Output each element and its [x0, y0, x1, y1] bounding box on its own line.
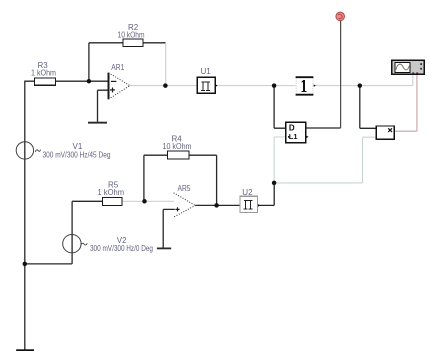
node AR5 output junction [214, 203, 219, 208]
wire U1 output to gain block (light) [217, 85, 295, 87]
divider block (D/U) [286, 122, 309, 142]
wire feedback1 left leg up from node [88, 43, 90, 81]
resistor R3 body [35, 78, 56, 85]
wire feedback2 left leg [144, 155, 168, 201]
resistor R4 body [168, 151, 189, 159]
gain block (1) [296, 77, 316, 95]
wire U2 output up to node [258, 183, 275, 206]
svg-text:U1: U1 [201, 67, 212, 76]
svg-text:1 kOhm: 1 kOhm [31, 68, 56, 77]
node AR1 output junction [163, 83, 168, 88]
svg-text:AR1: AR1 [111, 63, 124, 72]
wire gain block output to scope channel A (light) [313, 74, 412, 85]
node AR1 inverting input junction [87, 79, 92, 84]
oscilloscope XSC [392, 60, 425, 74]
wire AR5 non-inverting input to ground [163, 209, 175, 247]
op-amp AR5 [174, 193, 196, 217]
integrator block U1 [197, 77, 218, 93]
svg-text:U2: U2 [242, 188, 253, 197]
node AR5 inverting input junction [142, 199, 147, 204]
node U1 output net junction [272, 83, 277, 88]
AC source V1 [16, 142, 40, 159]
wire left rail vertical from R3 row down to ground [24, 81, 26, 350]
wire AR1 output rail to U1 (light) [130, 85, 197, 87]
wire AR1 inverting input rail [25, 80, 109, 82]
ground GND3 bottom left [16, 349, 34, 351]
ground GND1 under AR1 [88, 122, 107, 124]
wire feedback2 right leg [189, 155, 217, 205]
svg-text:10 kOhm: 10 kOhm [118, 30, 145, 39]
AC source V2 [63, 235, 88, 253]
svg-text:AR5: AR5 [178, 184, 191, 193]
probe (red) [336, 12, 345, 21]
wire V2 vertical rail [71, 201, 73, 264]
svg-text:300 mV/300 Hz/0 Deg: 300 mV/300 Hz/0 Deg [90, 244, 153, 253]
svg-text:10 kOhm: 10 kOhm [163, 142, 192, 151]
svg-text:L1: L1 [289, 132, 298, 141]
wire divider output to probe leg [306, 127, 341, 129]
svg-text:300 mV/300 Hz/45 Deg: 300 mV/300 Hz/45 Deg [43, 151, 111, 160]
wire node to multiplier input 1 [360, 86, 376, 129]
multiplier block [376, 126, 394, 139]
wire node to divider input 1 [274, 86, 285, 129]
wire AR5 inverting input rail through R5 [72, 200, 122, 202]
integrator block U2 [240, 196, 260, 212]
wire divider input 2 from lower node (light) [274, 137, 285, 183]
node ground rail junction [23, 262, 28, 267]
resistor R5 body [103, 198, 122, 206]
wire multiplier output to scope channel B (pink) [394, 74, 417, 131]
wire V2 bottom to ground rail [25, 263, 72, 265]
wire feedback1 right leg down to output node (light) [165, 43, 167, 86]
wire AR5 output rail to U2 [195, 204, 240, 206]
wire probe vertical leg [340, 21, 342, 128]
wire R5 to AR5 inverting input (light) [122, 200, 174, 202]
resistor R2 body [123, 39, 143, 47]
svg-text:1 kOhm: 1 kOhm [98, 188, 125, 197]
wire AR1 non-inverting input to ground [98, 90, 109, 122]
wire feedback1 top horizontal through R2 [89, 42, 166, 44]
ground GND2 under AR5 [157, 248, 171, 250]
wire node to multiplier input 2 (light) [274, 137, 376, 183]
node U2 output net junction [272, 181, 277, 186]
node gain output net junction [358, 83, 363, 88]
op-amp AR1 [109, 73, 130, 100]
